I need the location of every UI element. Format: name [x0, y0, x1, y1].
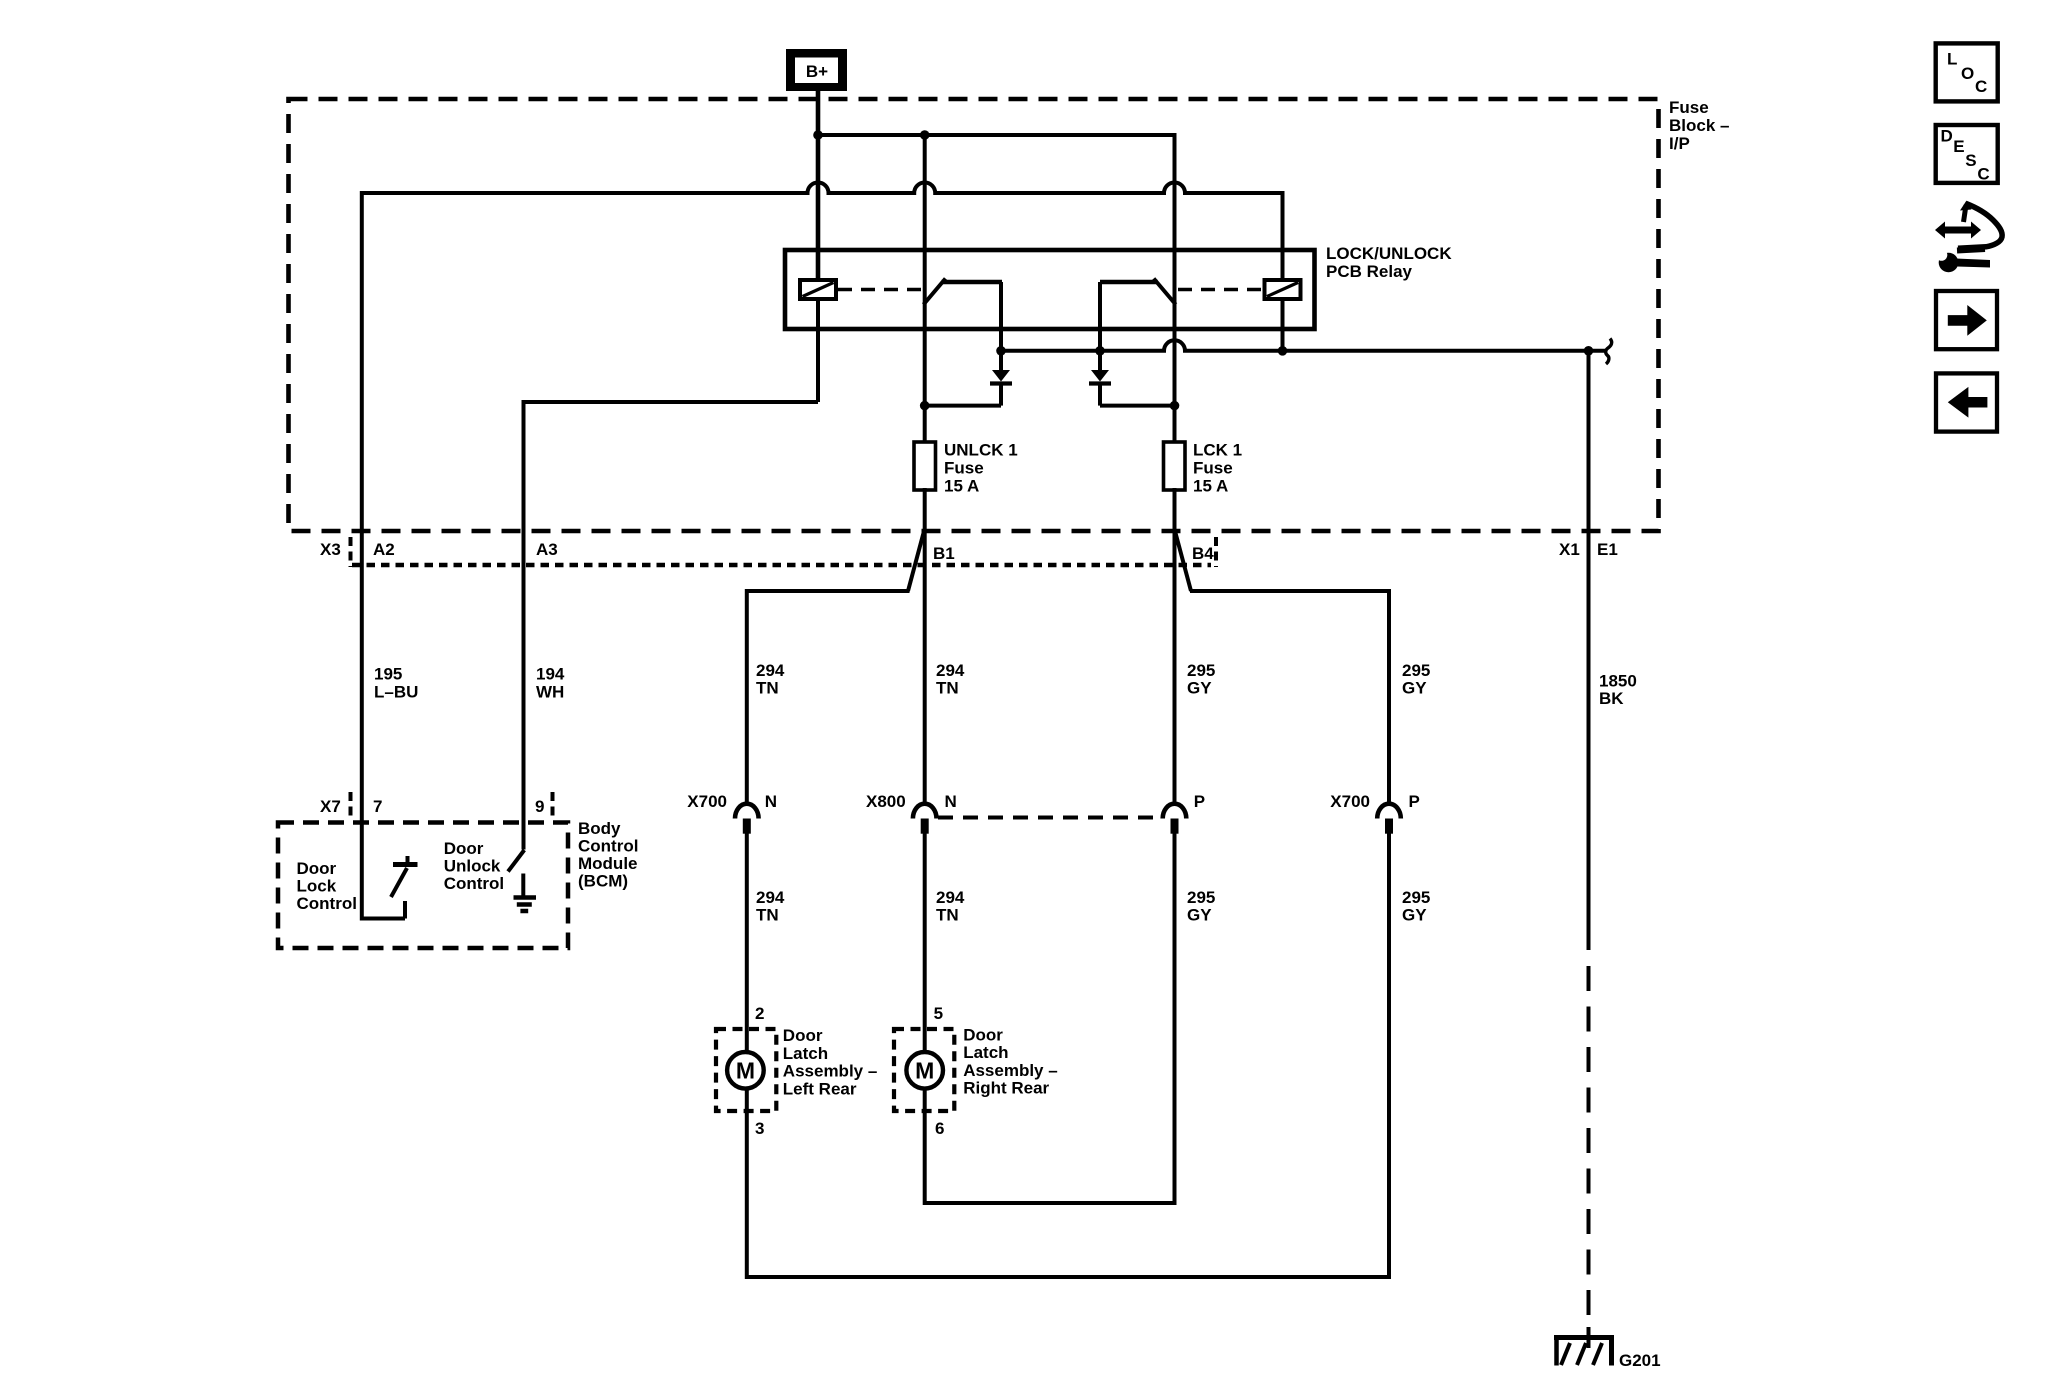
svg-text:S: S	[1965, 151, 1976, 170]
wire label 295 GY (right)	[1402, 661, 1430, 698]
svg-text:E1: E1	[1597, 540, 1618, 559]
diode D2	[1089, 346, 1179, 410]
wire label 295 GY (mid lower)	[1187, 888, 1215, 925]
connector labels	[687, 792, 1420, 811]
svg-text:X7: X7	[320, 797, 341, 816]
svg-text:B1: B1	[933, 544, 955, 563]
svg-text:TN: TN	[756, 679, 779, 698]
svg-text:L: L	[1947, 49, 1957, 68]
relay coil (lock)	[1178, 280, 1301, 299]
connector pair dashed link	[938, 816, 1161, 820]
splice at B1	[908, 533, 924, 591]
Fuse Block - I/P label	[1669, 98, 1729, 153]
Fuse Block - I/P enclosure	[289, 99, 1659, 531]
svg-text:TN: TN	[936, 679, 959, 698]
door latch assembly right rear enclosure	[894, 1029, 954, 1111]
svg-text:294: 294	[936, 888, 965, 907]
svg-text:Right Rear: Right Rear	[963, 1079, 1049, 1098]
door latch right label	[963, 1025, 1057, 1097]
door lock control label	[297, 859, 357, 913]
svg-text:295: 295	[1187, 888, 1215, 907]
svg-text:E: E	[1953, 137, 1964, 156]
wire label 294 TN (mid lower)	[936, 888, 965, 925]
door unlock control switch	[508, 850, 536, 911]
wire 295 GY right branch	[1387, 589, 1391, 804]
svg-text:X1: X1	[1559, 540, 1580, 559]
svg-text:6: 6	[935, 1119, 944, 1138]
svg-text:Assembly –: Assembly –	[783, 1062, 878, 1081]
svg-text:LOCK/UNLOCK: LOCK/UNLOCK	[1326, 244, 1452, 263]
svg-text:Assembly –: Assembly –	[963, 1061, 1057, 1080]
motor M right	[906, 1052, 943, 1089]
svg-text:Block –: Block –	[1669, 116, 1729, 135]
icon DESC box	[1936, 125, 1998, 183]
wire 1850 BK dashed	[1587, 966, 1591, 1330]
wire label 295 GY (right lower)	[1402, 888, 1430, 925]
splice at B4	[1176, 533, 1192, 591]
svg-text:L–BU: L–BU	[374, 683, 418, 702]
svg-text:Unlock: Unlock	[444, 857, 501, 876]
svg-text:Fuse: Fuse	[1669, 98, 1709, 117]
svg-text:B4: B4	[1192, 544, 1214, 563]
connector tick B4	[1214, 537, 1218, 567]
wire label 294 TN (left lower)	[756, 888, 785, 925]
fuse UNLCK 1 15A	[914, 441, 1018, 496]
wire 294 TN straight (B1 to X800)	[923, 488, 927, 804]
svg-text:BK: BK	[1599, 689, 1624, 708]
diode D1	[920, 346, 1012, 410]
svg-text:C: C	[1975, 77, 1987, 96]
BCM enclosure	[278, 823, 568, 949]
icon LOC box	[1936, 43, 1998, 101]
svg-text:3: 3	[755, 1119, 764, 1138]
door lock control switch	[362, 856, 418, 919]
svg-text:(BCM): (BCM)	[578, 872, 628, 891]
svg-text:D: D	[1941, 126, 1953, 145]
wire 1850 BK solid	[1587, 351, 1591, 950]
wire 295 GY straight (B4 to P)	[1173, 488, 1177, 804]
svg-text:X700: X700	[687, 792, 727, 811]
connector tick X3	[349, 537, 353, 567]
svg-text:194: 194	[536, 665, 565, 684]
svg-text:195: 195	[374, 665, 402, 684]
svg-text:X800: X800	[866, 792, 906, 811]
svg-text:N: N	[765, 792, 777, 811]
svg-text:Door: Door	[783, 1026, 823, 1045]
svg-text:Module: Module	[578, 854, 638, 873]
svg-text:P: P	[1194, 792, 1205, 811]
relay label	[1326, 244, 1452, 281]
svg-text:GY: GY	[1187, 906, 1212, 925]
door latch assembly left rear enclosure	[716, 1029, 776, 1111]
svg-text:Latch: Latch	[963, 1043, 1008, 1062]
svg-text:Door: Door	[963, 1025, 1003, 1044]
junction node B+ bus	[813, 130, 823, 140]
door unlock control label	[444, 839, 504, 893]
icon arrow right box	[1936, 291, 1997, 349]
motor M left	[727, 1052, 764, 1089]
svg-text:9: 9	[535, 797, 544, 816]
svg-text:I/P: I/P	[1669, 134, 1690, 153]
svg-text:7: 7	[373, 797, 382, 816]
connector X700 P	[1377, 804, 1401, 834]
svg-text:294: 294	[936, 661, 965, 680]
wires right motor	[923, 834, 927, 1054]
svg-text:A2: A2	[373, 540, 395, 559]
connector X7 labels	[320, 797, 544, 816]
svg-text:Control: Control	[444, 874, 504, 893]
connector X800 N	[913, 804, 937, 834]
svg-text:Door: Door	[297, 859, 337, 878]
door latch left label	[783, 1026, 878, 1098]
svg-text:PCB Relay: PCB Relay	[1326, 262, 1413, 281]
svg-text:Body: Body	[578, 819, 621, 838]
wire label 1850 BK	[1599, 672, 1637, 709]
svg-text:15 A: 15 A	[1193, 477, 1228, 496]
svg-text:X3: X3	[320, 540, 341, 559]
relay switch (lock side)	[1100, 279, 1176, 445]
ground G201	[1554, 1327, 1614, 1366]
fuse LCK 1 15A	[1164, 441, 1243, 496]
right motor return wire	[925, 834, 1175, 1204]
connector tick X7 right	[551, 792, 555, 820]
connector row dotted line	[352, 563, 1211, 568]
svg-text:2: 2	[755, 1004, 764, 1023]
wire end curl	[1606, 339, 1612, 365]
junction node lock coil to bus	[1281, 299, 1285, 351]
svg-text:GY: GY	[1402, 906, 1427, 925]
svg-text:Fuse: Fuse	[944, 459, 984, 478]
relay coil (unlock)	[800, 280, 922, 299]
wire 294 TN left branch	[745, 589, 749, 804]
wire label 194 WH	[536, 665, 565, 702]
relay LOCK/UNLOCK PCB enclosure	[785, 250, 1315, 329]
svg-text:Latch: Latch	[783, 1044, 828, 1063]
svg-text:15 A: 15 A	[944, 477, 979, 496]
svg-text:5: 5	[934, 1004, 943, 1023]
svg-text:G201: G201	[1619, 1351, 1661, 1370]
svg-text:GY: GY	[1402, 679, 1427, 698]
svg-text:M: M	[736, 1058, 755, 1084]
svg-text:A3: A3	[536, 540, 558, 559]
wire 195 L-BU vertical (A2)	[360, 191, 364, 921]
BCM label	[578, 819, 638, 891]
icon arrow left box	[1936, 373, 1997, 431]
svg-text:P: P	[1409, 792, 1420, 811]
svg-text:WH: WH	[536, 683, 564, 702]
svg-text:GY: GY	[1187, 679, 1212, 698]
connector X800 P	[1163, 804, 1187, 834]
svg-text:O: O	[1961, 64, 1974, 83]
wires left motor	[745, 834, 749, 1054]
junction node E1	[1584, 346, 1594, 356]
icon hand/wrench (service info)	[1935, 201, 2002, 273]
svg-text:Fuse: Fuse	[1193, 459, 1233, 478]
connector labels	[320, 540, 1618, 563]
svg-text:294: 294	[756, 661, 785, 680]
wire B+ vertical	[816, 91, 821, 281]
bottom bus wire	[747, 834, 1389, 1278]
svg-text:Lock: Lock	[297, 877, 337, 896]
svg-text:Left Rear: Left Rear	[783, 1079, 857, 1098]
svg-text:TN: TN	[936, 906, 959, 925]
svg-text:C: C	[1977, 164, 1989, 183]
svg-text:Control: Control	[297, 894, 357, 913]
svg-text:294: 294	[756, 888, 785, 907]
wire relay to E1 ground bus	[1001, 340, 1606, 351]
relay switch (unlock side)	[924, 135, 1003, 444]
svg-text:M: M	[915, 1058, 934, 1084]
svg-text:295: 295	[1187, 661, 1215, 680]
svg-text:295: 295	[1402, 888, 1430, 907]
connector tick X7 left	[349, 792, 353, 820]
connector X700 N	[735, 804, 759, 834]
wire label 295 GY (mid)	[1187, 661, 1215, 698]
svg-text:B+: B+	[806, 62, 828, 81]
svg-text:295: 295	[1402, 661, 1430, 680]
wire door-lock control to lock coil	[362, 183, 1283, 282]
svg-text:X700: X700	[1330, 792, 1370, 811]
wire unlock coil to A3	[816, 297, 820, 402]
junction node	[920, 130, 930, 140]
svg-text:TN: TN	[756, 906, 779, 925]
wire B+ bus y=135	[818, 133, 1175, 137]
svg-text:1850: 1850	[1599, 672, 1637, 691]
wire label 294 TN (left)	[756, 661, 785, 698]
battery feed B+ terminal	[786, 49, 847, 91]
svg-text:N: N	[945, 792, 957, 811]
svg-text:UNLCK 1: UNLCK 1	[944, 441, 1018, 460]
wire label 195 L-BU	[374, 665, 418, 702]
svg-text:LCK 1: LCK 1	[1193, 441, 1242, 460]
svg-text:Door: Door	[444, 839, 484, 858]
wire label 294 TN (mid)	[936, 661, 965, 698]
svg-text:Control: Control	[578, 837, 638, 856]
